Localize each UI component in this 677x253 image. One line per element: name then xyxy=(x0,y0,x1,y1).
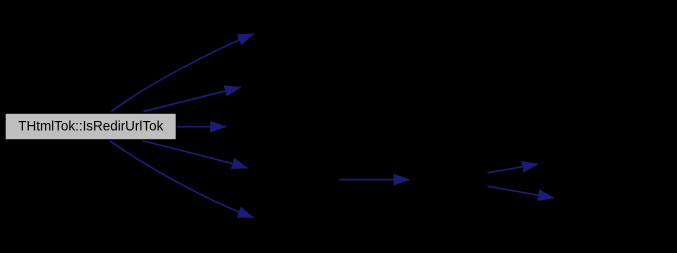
wire edge8 third-level lower xyxy=(488,186,554,198)
wire edge6 mid horizontal second-level xyxy=(339,179,409,181)
wire edge5 to bottom callee xyxy=(110,141,254,218)
wire edge3 horizontal to third callee xyxy=(176,126,226,128)
wire edge4 to fourth callee xyxy=(143,141,248,168)
wire edge7 third-level upper xyxy=(488,164,539,173)
wire edge2 to second callee xyxy=(144,87,241,111)
wire edge1 to top callee xyxy=(111,34,253,112)
svg-text:THtmlTok::IsRedirUrlTok: THtmlTok::IsRedirUrlTok xyxy=(18,118,164,134)
node THtmlTok::IsRedirUrlTok xyxy=(5,113,176,139)
